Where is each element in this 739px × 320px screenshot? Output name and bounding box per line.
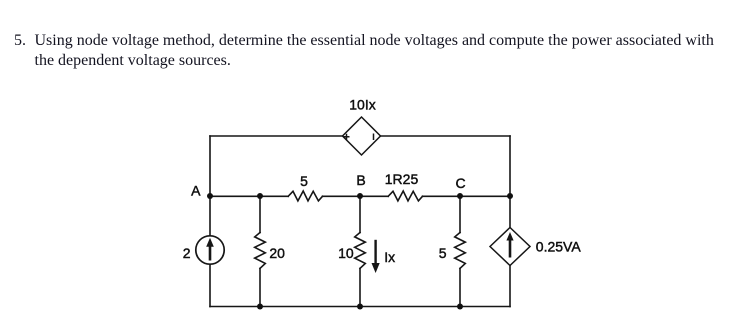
svg-text:10: 10 [338,245,354,261]
svg-text:B: B [356,172,365,188]
svg-text:1R25: 1R25 [385,171,419,187]
wire right side lower [509,266,511,307]
wire C down to R5b [459,196,461,233]
wire left side lower [209,265,211,307]
svg-text:5: 5 [439,245,447,261]
resistor 1R25 (B-C) [388,191,422,201]
wire 1R25 to right side [423,195,511,197]
current arrow Ix [372,240,380,273]
junction node B [357,193,363,199]
junction node A [207,193,213,199]
svg-text:10Ix: 10Ix [349,97,375,113]
wire top-left segment [210,135,343,137]
resistor 5 (below C) [455,233,466,269]
dependent current source 0.25VA (right diamond) [490,228,530,266]
wire R20 to bottom [259,268,261,306]
junction node C [457,193,463,199]
svg-text:C: C [455,175,465,191]
svg-text:A: A [191,183,201,199]
wire middle A to R5 [210,195,288,197]
independent current source 2A (circle) [196,236,224,264]
svg-text:0.25VA: 0.25VA [536,239,582,255]
svg-text:2: 2 [183,245,191,261]
svg-text:Ix: Ix [384,249,395,265]
wire R5b to bottom [459,268,461,306]
dependent voltage source 10Ix (top diamond) [343,117,381,155]
junction dot bottom 3 [457,304,463,310]
wire node to R20 [259,196,261,233]
junction dot bottom 1 [257,304,263,310]
wire left side upper [209,136,211,236]
wire R10 to bottom [359,268,361,306]
wire right side upper [509,136,511,228]
wire top-right segment [381,135,511,137]
resistor 20 [255,233,266,269]
wire B down to R10 [359,196,361,233]
svg-text:20: 20 [269,245,285,261]
resistor 5 (A-B) [288,191,322,201]
junction dot bottom 2 [357,304,363,310]
junction dot mid-right [507,193,513,199]
wire bottom [210,306,510,308]
wire R5 to B [323,195,389,197]
resistor 10 [355,233,366,269]
junction dot mid-left [257,193,263,199]
svg-text:5: 5 [300,173,308,189]
